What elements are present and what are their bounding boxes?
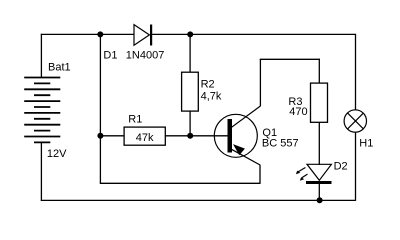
- resistor R3: [311, 83, 328, 122]
- wire R2 bottom lead: [189, 111, 191, 136]
- wire emitter vertical segment: [259, 165, 261, 184]
- svg-text:D1: D1: [103, 50, 117, 62]
- node junction dot base rail left: [97, 133, 103, 139]
- wire base rail right segment: [165, 135, 228, 137]
- node junction dot base rail R2: [187, 133, 193, 139]
- svg-text:470: 470: [289, 106, 307, 118]
- LED D2: [296, 164, 332, 184]
- wire battery positive lead: [40, 34, 42, 78]
- svg-text:H1: H1: [359, 138, 373, 150]
- wire collector vertical segment: [259, 59, 261, 106]
- wire left vertical rail node A: [99, 34, 101, 184]
- wire right rail lamp bottom: [355, 132, 357, 201]
- wire R3 top lead: [318, 59, 320, 84]
- wire D2 cathode lead: [318, 184, 320, 201]
- wire R3 bottom lead: [318, 122, 320, 165]
- svg-text:D2: D2: [334, 161, 348, 173]
- node junction dot top-left: [97, 31, 103, 37]
- lamp H1: [344, 110, 366, 132]
- resistor R2: [182, 72, 199, 111]
- wire right rail lamp top: [355, 34, 357, 110]
- wire battery negative lead: [40, 142, 42, 201]
- battery Bat1 plates: [24, 78, 60, 143]
- svg-text:Bat1: Bat1: [48, 62, 71, 74]
- resistor R1: [124, 127, 165, 145]
- wire R2 top lead: [189, 34, 191, 73]
- wire top rail right of D1: [152, 33, 356, 35]
- svg-text:12V: 12V: [47, 148, 67, 160]
- svg-text:47k: 47k: [136, 132, 154, 144]
- wire top rail left of D1: [41, 33, 134, 35]
- wire base rail left segment: [100, 135, 125, 137]
- svg-text:1N4007: 1N4007: [126, 50, 165, 62]
- svg-text:R2: R2: [201, 78, 215, 90]
- node junction dot bottom D2: [317, 197, 323, 203]
- svg-text:4,7k: 4,7k: [201, 91, 222, 103]
- diode D1 1N4007: [134, 25, 152, 46]
- wire collector horizontal segment: [260, 58, 320, 60]
- wire bottom rail: [41, 199, 356, 201]
- svg-text:R1: R1: [128, 113, 142, 125]
- wire emitter return bottom: [100, 182, 260, 184]
- transistor Q1: [214, 106, 260, 165]
- svg-text:BC 557: BC 557: [262, 137, 299, 149]
- node junction dot top D1 cathode: [187, 31, 193, 37]
